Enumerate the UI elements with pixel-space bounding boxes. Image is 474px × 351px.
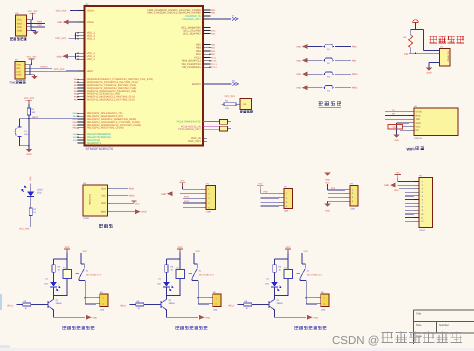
svg-text:GND: GND xyxy=(384,184,389,187)
svg-text:PA8: PA8 xyxy=(29,177,32,182)
svg-text:GND: GND xyxy=(141,211,146,214)
svg-text:PB14: PB14 xyxy=(73,124,79,127)
svg-text:PB15: PB15 xyxy=(73,127,79,130)
svg-text:TIM_CK09/PA15: TIM_CK09/PA15 xyxy=(182,66,202,69)
svg-text:PB15(SPI2_MOSI/TIM1_CH3N): PB15(SPI2_MOSI/TIM1_CH3N) xyxy=(87,127,124,130)
svg-text:DIO: DIO xyxy=(16,67,20,70)
svg-text:GND: GND xyxy=(296,59,301,62)
svg-text:GND: GND xyxy=(313,316,318,319)
svg-text:WIFI: WIFI xyxy=(407,147,415,151)
svg-text:PB13: PB13 xyxy=(184,200,190,203)
svg-text:VDD_3: VDD_3 xyxy=(87,38,96,41)
svg-text:PB1: PB1 xyxy=(404,53,409,56)
svg-text:RX: RX xyxy=(392,113,396,116)
svg-text:VCC_3V3: VCC_3V3 xyxy=(27,56,38,59)
svg-text:GND: GND xyxy=(26,153,31,156)
svg-text:VCC: VCC xyxy=(16,64,21,67)
svg-text:VCC: VCC xyxy=(135,202,140,205)
svg-text:VCC: VCC xyxy=(258,183,263,186)
svg-text:PC15-OSC32_OUT: PC15-OSC32_OUT xyxy=(178,128,201,131)
svg-text:GND: GND xyxy=(296,73,301,76)
svg-text:VCC_3V3: VCC_3V3 xyxy=(54,68,65,71)
svg-text:SWD: SWD xyxy=(73,136,78,139)
svg-text:GND: GND xyxy=(57,55,62,58)
svg-text:VCC: VCC xyxy=(83,250,88,253)
svg-text:PB11: PB11 xyxy=(129,188,135,191)
svg-text:RXD: RXD xyxy=(416,114,421,117)
svg-text:PB2/BOOT1: PB2/BOOT1 xyxy=(87,142,102,145)
svg-text:GND: GND xyxy=(161,193,166,196)
svg-text:10K: 10K xyxy=(225,107,229,110)
svg-text:LED: LED xyxy=(44,283,48,286)
svg-text:Size: Size xyxy=(416,323,422,327)
svg-text:OLED096: OLED096 xyxy=(88,194,91,205)
svg-text:10K: 10K xyxy=(32,111,36,114)
svg-text:GND: GND xyxy=(57,21,62,24)
svg-text:PB1: PB1 xyxy=(352,59,357,62)
svg-text:CLK: CLK xyxy=(16,70,21,73)
svg-text:PB13: PB13 xyxy=(73,121,79,124)
svg-text:S8050: S8050 xyxy=(169,302,176,305)
svg-text:REL1: REL1 xyxy=(8,304,14,307)
svg-text:VCC_3V3: VCC_3V3 xyxy=(24,97,35,100)
svg-text:VCC: VCC xyxy=(416,126,421,129)
svg-text:GND: GND xyxy=(101,211,107,214)
svg-text:STM32F103RCT6: STM32F103RCT6 xyxy=(86,147,114,151)
svg-text:SWD: SWD xyxy=(73,139,78,142)
svg-text:PB10: PB10 xyxy=(73,112,79,115)
svg-text:PB0: PB0 xyxy=(352,46,357,49)
svg-text:LED: LED xyxy=(265,283,269,286)
svg-text:SDA: SDA xyxy=(101,188,106,191)
svg-text:JDQ: JDQ xyxy=(100,309,105,312)
svg-text:GND: GND xyxy=(394,139,399,142)
svg-text:CSDN @: CSDN @ xyxy=(332,335,379,347)
svg-text:GND: GND xyxy=(205,316,210,319)
svg-text:OSC: OSC xyxy=(211,32,216,35)
svg-text:SWDIO: SWDIO xyxy=(40,65,48,68)
svg-text:JDQ: JDQ xyxy=(213,309,218,312)
svg-text:SWD: SWD xyxy=(73,133,78,136)
svg-text:I2C1_SDA/PB7: I2C1_SDA/PB7 xyxy=(183,32,201,35)
svg-text:GND: GND xyxy=(416,122,421,125)
svg-text:VBAT: VBAT xyxy=(87,70,94,73)
svg-text:GND: GND xyxy=(17,29,22,32)
svg-text:TXD: TXD xyxy=(17,26,22,29)
svg-text:LED: LED xyxy=(157,283,161,286)
svg-text:JRC-4T7B0-1L-C: JRC-4T7B0-1L-C xyxy=(86,273,102,276)
svg-text:GND: GND xyxy=(296,87,301,90)
svg-text:PB10: PB10 xyxy=(129,195,135,198)
svg-text:ESP-01: ESP-01 xyxy=(415,137,423,140)
svg-text:VCC: VCC xyxy=(65,246,70,249)
svg-text:GND: GND xyxy=(92,316,97,319)
svg-text:VCC_3V3: VCC_3V3 xyxy=(224,95,235,98)
svg-text:Number: Number xyxy=(439,323,449,327)
svg-text:VCC: VCC xyxy=(196,250,201,253)
svg-text:UTXD: UTXD xyxy=(416,111,423,114)
svg-text:PC10: PC10 xyxy=(211,60,217,63)
svg-text:VCC: VCC xyxy=(396,171,401,174)
svg-text:VCC_3V3: VCC_3V3 xyxy=(28,10,39,13)
svg-text:GND: GND xyxy=(325,179,330,182)
svg-text:VCC: VCC xyxy=(304,250,309,253)
svg-text:HC-SR501: HC-SR501 xyxy=(447,52,450,63)
svg-text:OSC_OUT: OSC_OUT xyxy=(188,140,201,143)
svg-text:VCC: VCC xyxy=(180,180,185,183)
svg-text:PC1-2: PC1-2 xyxy=(211,66,218,69)
svg-text:GND: GND xyxy=(426,72,431,75)
svg-text:REL1: REL1 xyxy=(121,304,127,307)
svg-text:LED1: LED1 xyxy=(37,189,43,192)
svg-text:RXD: RXD xyxy=(37,21,42,24)
svg-text:S8050: S8050 xyxy=(56,302,63,305)
svg-text:OLED: OLED xyxy=(83,217,89,220)
svg-text:JRC-4T7B0-1L-C: JRC-4T7B0-1L-C xyxy=(199,273,215,276)
svg-text:GND: GND xyxy=(394,189,399,192)
svg-text:VDD: VDD xyxy=(101,202,106,205)
svg-text:VDDA: VDDA xyxy=(87,9,94,12)
svg-text:PA7(SPI1_MOSI/ADC12_IN7/TIM3_C: PA7(SPI1_MOSI/ADC12_IN7/TIM3_CH2) xyxy=(87,99,135,102)
svg-text:PB11: PB11 xyxy=(352,87,358,90)
svg-text:VCC_3V3: VCC_3V3 xyxy=(55,37,66,40)
svg-text:JRC-4T7B0-1L-C: JRC-4T7B0-1L-C xyxy=(307,273,323,276)
svg-text:VCC: VCC xyxy=(325,181,330,184)
svg-text:GND: GND xyxy=(325,210,330,213)
svg-text:VCC: VCC xyxy=(286,246,291,249)
svg-text:S8050: S8050 xyxy=(277,302,284,305)
svg-text:PB10: PB10 xyxy=(352,73,358,76)
svg-text:VSSA: VSSA xyxy=(87,21,94,24)
svg-text:SCL: SCL xyxy=(101,195,106,198)
svg-text:TXD: TXD xyxy=(416,118,421,121)
svg-text:GND: GND xyxy=(16,74,21,77)
svg-text:VSS_3: VSS_3 xyxy=(87,58,96,61)
svg-text:VCC: VCC xyxy=(17,19,22,22)
svg-text:JDQ: JDQ xyxy=(321,309,326,312)
svg-text:VCC_3V3: VCC_3V3 xyxy=(56,9,67,12)
svg-text:Title: Title xyxy=(416,312,422,316)
svg-text:VCC_3V3: VCC_3V3 xyxy=(19,228,30,231)
svg-text:PC1-1: PC1-1 xyxy=(211,63,218,66)
svg-text:PC11: PC11 xyxy=(211,56,217,59)
svg-text:PC13-TAMPER-RTC: PC13-TAMPER-RTC xyxy=(177,120,201,123)
svg-text:BOOT0: BOOT0 xyxy=(192,83,201,86)
svg-text:VCC: VCC xyxy=(393,126,398,129)
svg-text:TXD: TXD xyxy=(37,24,42,27)
svg-text:PB11: PB11 xyxy=(73,115,79,118)
svg-text:PB14: PB14 xyxy=(184,196,190,199)
svg-text:DB12: DB12 xyxy=(420,229,426,232)
svg-text:VCC: VCC xyxy=(178,246,183,249)
svg-text:OSC: OSC xyxy=(211,29,216,32)
svg-text:PD1/OSC_OUT: PD1/OSC_OUT xyxy=(182,18,201,21)
svg-text:RXD: RXD xyxy=(17,22,22,25)
svg-text:LED: LED xyxy=(37,192,42,195)
svg-text:GND: GND xyxy=(296,46,301,49)
svg-text:EN: EN xyxy=(416,129,420,132)
svg-text:REL1: REL1 xyxy=(229,304,235,307)
